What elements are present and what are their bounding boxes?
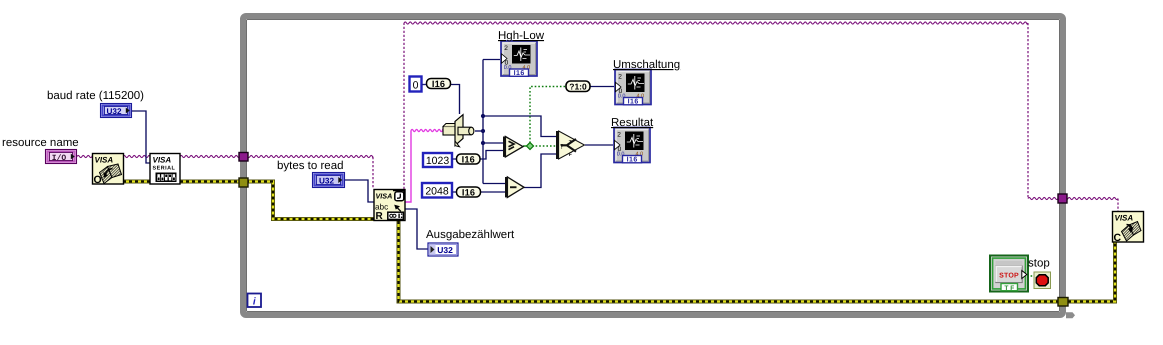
- wire VISA Open to VISA Serial: [123, 155, 150, 157]
- control resource name I/O: [46, 150, 77, 164]
- wire I16 const 0 to type cast: [451, 85, 460, 115]
- string wire VISA Read buffer to type cast: [405, 131, 411, 203]
- while loop border: [243, 16, 1063, 315]
- wire baud rate to VISA Serial: [132, 111, 150, 163]
- wire bool-to-01 out to Umschaltung: [590, 86, 614, 88]
- svg-text:?: ?: [560, 144, 564, 151]
- error wire VISA Open to VISA Serial: [123, 180, 150, 184]
- svg-text:T: T: [569, 140, 572, 146]
- iteration terminal i: [248, 294, 262, 308]
- boolean wire greater-equal to select/bool-to-01: [523, 145, 528, 147]
- tunnel purple left: [239, 153, 248, 162]
- bool to 0,1 node: [566, 81, 590, 92]
- wire to Hgh-Low chart: [483, 59, 500, 61]
- svg-text:U32: U32: [437, 245, 453, 255]
- svg-text:stop: stop: [1028, 258, 1050, 270]
- svg-text:I16: I16: [462, 154, 475, 164]
- I16 label for 0: [422, 84, 426, 86]
- wire bytes to read to VISA Read: [345, 180, 374, 202]
- svg-text:2: 2: [617, 132, 621, 139]
- svg-text:VISA: VISA: [1115, 214, 1134, 223]
- select node: [556, 131, 585, 159]
- svg-text:I/O: I/O: [52, 154, 67, 163]
- indicator Ausgabezaehlwert U32: [428, 243, 458, 256]
- VISA Serial Configure: [150, 154, 180, 185]
- svg-text:abc: abc: [375, 203, 388, 212]
- svg-text:1023: 1023: [426, 155, 450, 167]
- stop button terminal: [990, 256, 1028, 292]
- error wire VISA Serial to VISA Read (through left tunnel): [180, 182, 374, 220]
- boolean wire stop to loop condition: [1027, 275, 1034, 277]
- I16 label for 2048: [452, 191, 456, 193]
- wire 1023 to greater-equal bottom input: [480, 151, 503, 160]
- constant 0: [410, 77, 422, 92]
- wire select out to Resultat: [585, 144, 613, 146]
- svg-text:T F: T F: [1004, 285, 1014, 292]
- wire VISA Serial to VISA Read (through left tunnel): [180, 155, 373, 157]
- svg-text:Umschaltung: Umschaltung: [613, 59, 680, 71]
- svg-text:R: R: [376, 211, 384, 222]
- svg-text:I16: I16: [627, 157, 638, 164]
- svg-text:I16: I16: [514, 70, 525, 77]
- wire junction to select t input: [483, 116, 556, 137]
- type cast: [443, 115, 474, 147]
- constant 2048: [422, 183, 452, 198]
- svg-text:VISA: VISA: [95, 156, 114, 165]
- svg-text:STOP: STOP: [999, 273, 1019, 280]
- svg-text:i: i: [253, 297, 256, 308]
- VISA Close: [1113, 212, 1144, 245]
- svg-text:2: 2: [504, 45, 508, 52]
- I16 label for 1023: [452, 158, 456, 160]
- svg-text:0: 0: [413, 80, 419, 92]
- loop condition terminal: [1034, 272, 1051, 289]
- svg-text:C: C: [1114, 232, 1122, 244]
- constant 1023: [423, 153, 452, 167]
- indicator Resultat chart terminal: [614, 128, 650, 164]
- svg-text:Hgh-Low: Hgh-Low: [498, 30, 545, 42]
- subtract node: [505, 177, 524, 197]
- svg-text:?1:0: ?1:0: [569, 82, 587, 92]
- svg-text:Ausgabezählwert: Ausgabezählwert: [426, 229, 515, 241]
- VISA Read: [374, 190, 405, 223]
- svg-text:U32: U32: [106, 107, 121, 116]
- VISA Open: [93, 154, 124, 186]
- tunnel purple right: [1058, 194, 1067, 203]
- svg-text:O: O: [94, 174, 102, 186]
- wire VISA Read return count to Ausgabezaehlwert: [405, 209, 428, 249]
- greater or equal node: [503, 137, 523, 157]
- svg-text:SERIAL: SERIAL: [153, 166, 176, 172]
- svg-text:F: F: [569, 152, 572, 158]
- svg-text:bytes to read: bytes to read: [277, 160, 343, 172]
- svg-text:resource name: resource name: [2, 137, 79, 149]
- indicator Umschaltung chart terminal: [615, 70, 651, 106]
- control baud rate U32: [101, 104, 132, 118]
- svg-text:I16: I16: [432, 79, 445, 89]
- loop border resize tail bottom-right: [1066, 312, 1075, 318]
- wire 2048 to subtract bottom input: [481, 191, 505, 193]
- tunnel error right: [1058, 298, 1068, 307]
- wire resource name to VISA Open: [77, 155, 93, 157]
- svg-text:I16: I16: [628, 99, 639, 106]
- svg-text:U32: U32: [319, 177, 334, 186]
- svg-text:Resultat: Resultat: [611, 117, 654, 129]
- junction dots: [481, 114, 485, 118]
- svg-text:baud rate (115200): baud rate (115200): [47, 90, 144, 102]
- wire subtract out to select f input: [524, 154, 556, 188]
- wire junction vertical: [482, 60, 484, 184]
- svg-text:2: 2: [618, 74, 622, 81]
- svg-text:VISA: VISA: [153, 156, 172, 165]
- tunnel error left: [239, 178, 248, 187]
- wire type cast out to junction: [475, 130, 483, 132]
- wire VISA Read resource out to VISA Close (routed over top): [403, 23, 405, 189]
- wire junction to greater-equal top input: [483, 142, 503, 144]
- svg-text:I16: I16: [462, 187, 475, 197]
- svg-text:VISA: VISA: [376, 192, 393, 201]
- boolean junction diamond: [526, 142, 533, 149]
- control bytes to read U32: [313, 173, 345, 188]
- error wire VISA Read to VISA Close (through right tunnel): [399, 221, 1116, 302]
- wire junction to subtract top input: [483, 183, 505, 185]
- svg-text:2048: 2048: [425, 185, 449, 197]
- indicator Hgh-Low chart terminal: [501, 41, 537, 77]
